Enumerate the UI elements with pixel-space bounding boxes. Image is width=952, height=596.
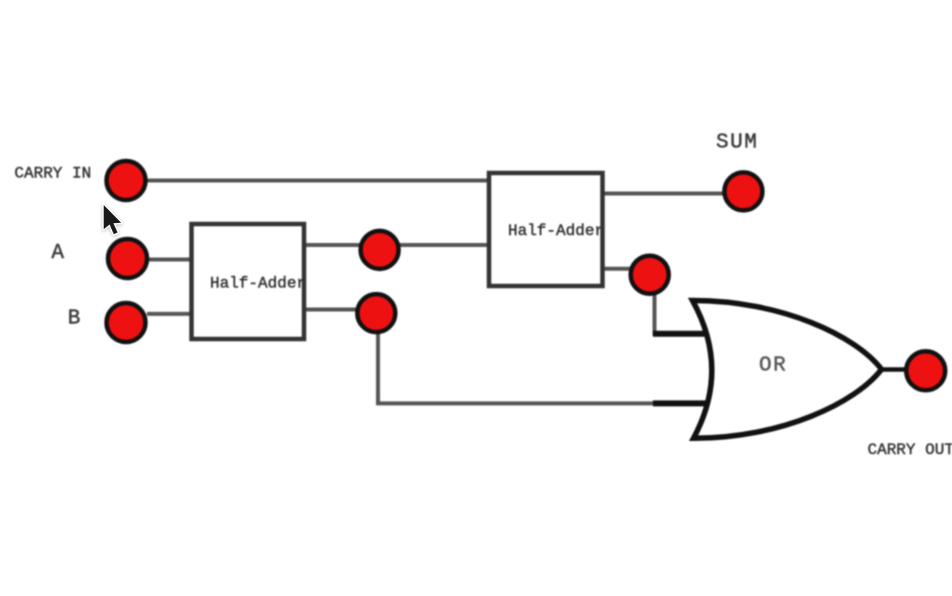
svg-text:OR: OR xyxy=(759,355,787,378)
node C1 junction xyxy=(357,294,395,332)
node CARRY IN terminal xyxy=(107,161,146,200)
node S1 junction xyxy=(361,231,399,269)
wire U2 carry output to node C2 xyxy=(602,267,634,271)
wire U1 carry output to node C1 xyxy=(304,308,360,312)
wire B input to U1 xyxy=(147,312,192,316)
or-gate input stub upper xyxy=(653,331,706,337)
node CARRY OUT terminal xyxy=(906,351,945,390)
svg-text:CARRY OUT: CARRY OUT xyxy=(868,441,952,459)
node SUM terminal xyxy=(724,172,762,210)
svg-text:CARRY IN: CARRY IN xyxy=(14,165,91,183)
half-adder U2 box xyxy=(489,173,603,286)
wire U1 sum output to U2 (node S1) xyxy=(304,243,489,247)
or-gate input stub lower xyxy=(653,400,708,406)
svg-text:Half-Adder: Half-Adder xyxy=(210,275,306,293)
wire C2 down to OR gate upper input xyxy=(655,293,661,334)
svg-text:B: B xyxy=(68,307,81,330)
mouse cursor xyxy=(98,199,142,251)
wire CARRY IN net (input terminal to U2 pin) xyxy=(146,179,489,183)
wire C1 down to OR gate lower input xyxy=(378,332,660,403)
node A terminal xyxy=(108,239,147,278)
or-gate body xyxy=(693,301,882,439)
wire A input to U1 xyxy=(147,258,192,262)
svg-text:Half-Adder: Half-Adder xyxy=(508,222,604,240)
or-gate output stub xyxy=(878,367,906,372)
node C2 junction xyxy=(631,256,669,294)
node B terminal xyxy=(107,303,146,342)
half-adder U1 box xyxy=(192,224,305,339)
wire U2 sum output to SUM terminal xyxy=(602,192,725,196)
svg-text:SUM: SUM xyxy=(716,131,758,154)
svg-text:A: A xyxy=(51,242,64,265)
